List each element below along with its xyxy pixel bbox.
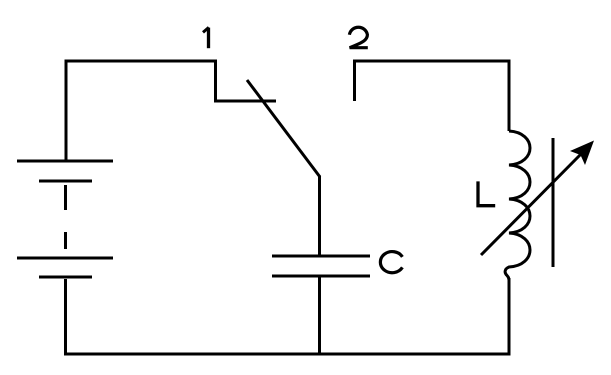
battery B1 dashed link dash-1 [64, 185, 67, 210]
wire top-right horizontal [353, 60, 511, 63]
variable inductor arrow shaft [481, 153, 582, 255]
label C [380, 252, 402, 273]
switch S1 contact 2 stub [353, 60, 356, 102]
label L [478, 181, 495, 205]
wire bottom horizontal [64, 353, 511, 356]
label 1 [203, 27, 209, 32]
label 2 [349, 27, 367, 47]
wire left vertical upper [65, 60, 68, 162]
battery B1 cell-1 short plate [39, 180, 92, 183]
capacitor C top plate [272, 255, 370, 258]
variable inductor bar [552, 138, 555, 267]
switch S1 contact 1 stub [216, 60, 277, 102]
battery B1 dashed link dash-2 [64, 232, 67, 249]
inductor L coil [505, 131, 530, 280]
wire right vertical lower [508, 278, 511, 356]
variable inductor arrow head [570, 141, 594, 166]
wire left vertical lower [64, 279, 67, 356]
wire top-left horizontal [65, 60, 218, 63]
wire blade to capacitor [318, 176, 321, 257]
battery B1 cell-2 long plate [17, 257, 113, 260]
switch S1 blade [247, 80, 320, 177]
wire capacitor to bottom [318, 276, 321, 354]
capacitor C bottom plate [272, 275, 370, 278]
battery B1 cell-1 long plate [17, 160, 113, 163]
battery B1 cell-2 short plate [39, 276, 92, 279]
wire right vertical upper [508, 61, 511, 131]
